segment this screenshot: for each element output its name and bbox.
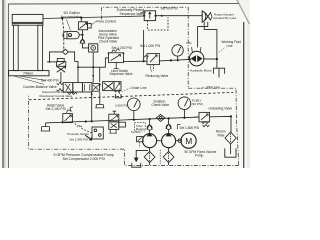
wire: unloading valve outlet to filter column: [210, 116, 231, 132]
wire: counterbalance label leader: [14, 76, 46, 84]
return filter diamond: [225, 132, 236, 144]
wire: relief 1200 to reducing valve: [124, 60, 148, 62]
auxiliary relief valve set 1200: [108, 49, 125, 63]
wire: flow control label leader: [92, 21, 97, 25]
node: gauge2 tee: [183, 117, 185, 119]
svg-text:Set 400 PSI: Set 400 PSI: [41, 79, 59, 83]
node: DCV feed tee: [91, 120, 93, 122]
svg-text:Reducing Valve: Reducing Valve: [146, 74, 169, 78]
svg-text:Directional Control Valve: Directional Control Valve: [40, 94, 73, 98]
page background: [0, 0, 250, 168]
spring under DCV pilot stage: [68, 92, 77, 94]
tank bracket at line left end: [41, 127, 50, 131]
rotary actuator symbol: [202, 10, 212, 22]
svg-text:Check Valve: Check Valve: [152, 103, 170, 107]
node: relief tee: [62, 121, 64, 123]
svg-text:Sequence Valve: Sequence Valve: [120, 12, 145, 16]
node: tee on y61 line: [143, 60, 145, 62]
svg-text:Set 1,800 PSI: Set 1,800 PSI: [180, 126, 200, 130]
node: gauge tee on motor line: [170, 59, 172, 61]
svg-text:Pilot Line: Pilot Line: [207, 85, 221, 89]
schematic frame border right: [243, 22, 245, 168]
svg-text:Suction: Suction: [131, 130, 141, 134]
check valve pump1: [147, 119, 153, 134]
svg-text:Check Valve: Check Valve: [99, 40, 117, 44]
top-right page corner cut: [237, 0, 251, 25]
wire: main accumulator line from press cap to sequence valve: [43, 16, 144, 19]
svg-text:Counter-Balance Valve: Counter-Balance Valve: [23, 85, 57, 89]
left page-edge shadow: [2, 0, 4, 168]
node: working line junction at motor: [216, 58, 218, 60]
dashed pilot to pressure switch: [75, 123, 92, 133]
wire: dump valve down leg: [92, 52, 94, 83]
deceleration sequence valve with limit switch: [103, 82, 121, 91]
pressure gauge PG1 (motor line): [172, 45, 183, 61]
wire: pilot dash tail: [63, 50, 65, 52]
isolation check valve on main line: [156, 114, 164, 121]
wire: horizontal link line y67: [78, 66, 100, 68]
wire: pilot line label leader: [201, 87, 204, 90]
svg-text:Set 1,903 PSI: Set 1,903 PSI: [70, 137, 89, 141]
wire: counterbalance to DCV port A: [60, 72, 62, 83]
svg-text:M: M: [185, 136, 192, 146]
svg-text:Pump: Pump: [195, 154, 204, 158]
node: pilot tap junction: [61, 17, 63, 19]
dash-dot enclosure top: [29, 7, 239, 165]
pressure gauge PG2 (main line): [128, 98, 141, 120]
wire: drop from sequence area to y61 line: [143, 30, 145, 61]
schematic frame border left: [7, 4, 9, 168]
pressure gauge PG3 (pump2 line): [178, 97, 191, 118]
pump P1 (pressure compensated): [137, 132, 157, 147]
node: flow-control branch junction: [80, 17, 82, 19]
tank symbol bottom right: [225, 148, 236, 157]
right page-edge light strip: [247, 24, 250, 168]
case drain line with arrow to tank: [120, 142, 148, 167]
wire: DCV right drain stub: [99, 92, 101, 105]
svg-text:Hydraulic Motor: Hydraulic Motor: [190, 69, 212, 73]
label leader: accumulator: [67, 20, 71, 31]
wire: sequence valve to rotary actuator: [156, 15, 203, 17]
isolation solenoid valve on main line: [109, 111, 126, 133]
dashed drain between filters: [159, 150, 161, 164]
counterbalance valve bypass loop: [47, 52, 75, 63]
svg-text:Set 900 PSI: Set 900 PSI: [161, 6, 178, 10]
flow meter dashed box: [134, 122, 145, 131]
wire: actuator right leg to motor: [198, 22, 208, 48]
wire: motor outlet to junction: [203, 58, 217, 60]
flow control valve FC1: [78, 18, 91, 30]
relief valve set 2150: [63, 107, 73, 123]
node: pump1 tee: [149, 118, 151, 120]
electric motor M: [178, 133, 196, 148]
directional control valve DCV (4/3 solenoid pilot): [57, 82, 100, 92]
node: DCV-decel link: [99, 84, 101, 86]
press left column: [13, 25, 18, 70]
wire: left end drop to tank: [45, 123, 47, 127]
pump P2 (fixed volume): [162, 132, 176, 147]
drain line dash-dot short vertical: [118, 89, 120, 96]
svg-text:Set 1,200 PSI: Set 1,200 PSI: [112, 46, 132, 50]
shaft lines: [157, 140, 162, 142]
wire: relief 1200 drain stub: [114, 63, 119, 69]
wire: capsule to tee: [79, 34, 82, 36]
svg-text:Sequence Valve: Sequence Valve: [110, 72, 133, 76]
wire: working fluid label leader: [218, 48, 224, 53]
wire: check to dump valve elbow: [83, 44, 89, 48]
unloading valve: [194, 112, 209, 126]
wire: counterbalance outlet elbow: [75, 61, 78, 82]
svg-text:Set 1,000 PSI: Set 1,000 PSI: [140, 44, 160, 48]
node: pump2 tee: [168, 117, 170, 119]
suction filter F2: [163, 148, 174, 165]
svg-text:Accumulator: Accumulator: [61, 15, 83, 19]
wire: pilot dashed line down from accumulator line: [62, 18, 64, 49]
wire: to auxiliary relief valve: [100, 58, 109, 67]
sequence valve (externally piloted): [141, 11, 157, 21]
node: y67 crossing: [77, 66, 79, 68]
svg-text:Line: Line: [227, 44, 233, 48]
press right column: [38, 25, 43, 70]
press platen box: [9, 71, 49, 76]
suction filter F1: [144, 148, 155, 165]
wire: filter to tank: [230, 144, 232, 154]
pilot operated check valve (box with ball): [89, 44, 98, 52]
check valve diamond on bypass: [62, 49, 68, 54]
svg-text:2,905 PSI: 2,905 PSI: [115, 104, 128, 108]
wire: junction down to anchor bracket: [216, 59, 218, 68]
tank bracket on DCV drain: [95, 105, 104, 108]
anchor bracket below junction: [213, 68, 224, 77]
svg-text:(90 PSI): (90 PSI): [192, 102, 203, 106]
main pressure line (HPU): [46, 117, 199, 123]
node: filter column tee: [230, 115, 232, 117]
wire: DCV T-port to main pressure line: [91, 92, 93, 121]
node: accumulator tee: [81, 34, 83, 36]
press top plate: [12, 24, 43, 26]
svg-text:Platen: Platen: [24, 72, 34, 76]
spring under deceleration valve: [114, 90, 120, 92]
svg-text:Set 2,150 PSI: Set 2,150 PSI: [46, 107, 66, 111]
press cylinder cap: [12, 14, 43, 22]
wire: reducing valve label leader: [150, 65, 151, 72]
drain line dashed across middle: [29, 92, 233, 99]
reducing valve: [143, 54, 159, 71]
svg-text:Filter: Filter: [218, 133, 226, 137]
pressure switch box: [85, 127, 103, 140]
svg-text:Pressure Switch: Pressure Switch: [67, 132, 89, 136]
tank bracket under deceleration valve: [115, 94, 122, 98]
wire: drop to DCV P port right section: [99, 67, 101, 82]
wire: drain line label leader: [122, 88, 131, 92]
check valve below tee: [80, 37, 85, 44]
accumulator (50 gallon) capsule: [63, 31, 79, 38]
node: DCV lower port dots: [72, 92, 74, 94]
node: junction on actuator line: [161, 15, 163, 17]
counterbalance valve body: [57, 59, 66, 67]
svg-text:Set Compensator 2,000 PSI: Set Compensator 2,000 PSI: [63, 157, 105, 161]
node: relief branch tee: [92, 66, 94, 68]
svg-text:Flow Control: Flow Control: [97, 19, 117, 23]
node: gauge1 tee: [133, 119, 135, 121]
check valve pump2: [166, 118, 172, 133]
svg-text:Unloading Valve: Unloading Valve: [209, 106, 233, 110]
counterbalance valve arrow symbol: [57, 66, 66, 72]
svg-text:PSI: PSI: [187, 41, 192, 45]
svg-text:Drain Line: Drain Line: [132, 86, 147, 90]
hydraulic motor (bidirectional): [189, 47, 204, 66]
node: pilot tee: [85, 120, 87, 122]
svg-text:Actuated By Load: Actuated By Load: [213, 16, 236, 20]
wire: reducing valve to hydraulic motor: [159, 59, 189, 61]
wire: vertical drop from flow control to accumulator tee: [82, 30, 84, 39]
wire: actuator left leg to working line: [204, 22, 217, 59]
wire: sequence valve pilot dashes: [148, 17, 168, 30]
schematic frame border top: [8, 2, 239, 5]
